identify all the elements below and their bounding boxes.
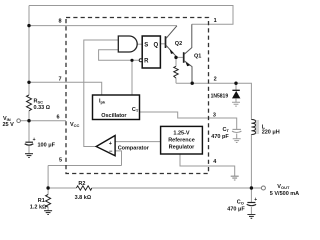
svg-text:25 V: 25 V bbox=[3, 122, 15, 128]
svg-text:220 μH: 220 μH bbox=[262, 129, 280, 135]
node Q2 emitter junction bbox=[174, 56, 177, 59]
node diode junction bbox=[234, 82, 237, 85]
diode D1 bbox=[232, 91, 240, 99]
wire: diode cathode stub bbox=[235, 83, 237, 90]
wire: comparator output to AND gate upper input bbox=[84, 40, 119, 147]
svg-text:VOUT: VOUT bbox=[277, 184, 290, 190]
wire: comparator inverting input riser bbox=[115, 151, 121, 166]
svg-text:Comparator: Comparator bbox=[118, 146, 150, 152]
wire: R1 bottom to ground bbox=[47, 207, 49, 211]
inductor core bbox=[256, 120, 259, 134]
svg-text:3.8 kΩ: 3.8 kΩ bbox=[75, 195, 91, 201]
wire: CO capacitor branch bbox=[250, 188, 252, 202]
svg-text:7: 7 bbox=[58, 77, 61, 83]
wire: pin 3 from oscillator CT to timing capacitor bbox=[140, 112, 237, 129]
wire: pin 8 rail to Q2 collector bbox=[29, 25, 177, 27]
wire: left input rail lower segment bbox=[28, 111, 30, 142]
latch R input bubble bbox=[139, 59, 142, 62]
svg-text:1: 1 bbox=[214, 18, 217, 24]
svg-text:1.25-V: 1.25-V bbox=[173, 130, 190, 136]
transistor Q2 emitter arrow bbox=[170, 49, 174, 54]
svg-text:470 pF: 470 pF bbox=[211, 134, 229, 140]
wire: inductor bottom to output node bbox=[250, 135, 252, 189]
wire: pin 2 emitter rail to switch node corner bbox=[176, 83, 251, 119]
ground diode bbox=[232, 102, 240, 106]
ground input cap bbox=[25, 154, 33, 158]
wire: Q2 emitter node to Q1 base bbox=[176, 56, 183, 58]
wire: latch Q output to Q2 base bbox=[160, 43, 164, 45]
svg-text:2: 2 bbox=[214, 76, 217, 82]
comparator bbox=[96, 136, 115, 156]
svg-text:CO: CO bbox=[237, 199, 244, 205]
wire: CT capacitor to ground bbox=[236, 134, 238, 139]
svg-text:0.33 Ω: 0.33 Ω bbox=[34, 105, 50, 111]
transistor Q1 emitter arrow bbox=[185, 62, 190, 67]
wire: pin 7 to oscillator Ipk input bbox=[29, 82, 102, 95]
svg-text:+: + bbox=[109, 141, 112, 147]
node VIN junction bbox=[27, 119, 30, 122]
svg-text:Q2: Q2 bbox=[175, 41, 182, 47]
wire: feedback divider riser bbox=[47, 166, 49, 195]
svg-text:Reference: Reference bbox=[168, 137, 195, 143]
resistor R2 bbox=[76, 186, 91, 190]
wire: output node to VOUT terminal bbox=[251, 187, 261, 189]
reference regulator block bbox=[161, 126, 203, 154]
svg-text:+: + bbox=[254, 197, 257, 203]
terminal VOUT bbox=[261, 186, 265, 190]
resistor RSC bbox=[27, 95, 32, 111]
wire: VIN terminal stub bbox=[20, 120, 29, 122]
wire: oscillator output to AND gate lower input bbox=[99, 50, 140, 61]
svg-text:RSC: RSC bbox=[34, 99, 44, 105]
node Q1 emitter junction bbox=[191, 82, 194, 85]
node pin 8 junction bbox=[27, 24, 30, 27]
diode D1 cathode bar bbox=[232, 89, 239, 91]
ground pin 4 bbox=[231, 176, 239, 180]
svg-text:Q1: Q1 bbox=[194, 54, 201, 60]
svg-text:Oscillator: Oscillator bbox=[101, 113, 127, 119]
svg-text:Q: Q bbox=[153, 42, 158, 48]
svg-text:470 μF: 470 μF bbox=[227, 206, 245, 212]
capacitor 100uF input bbox=[25, 141, 33, 143]
svg-text:8: 8 bbox=[58, 18, 61, 24]
svg-text:−: − bbox=[109, 149, 113, 155]
wire: comparator noninverting input from reference bbox=[115, 141, 161, 143]
wire: pin 6 VCC stub bbox=[29, 120, 66, 122]
svg-text:S: S bbox=[144, 42, 148, 48]
capacitor CO bbox=[247, 202, 255, 204]
node pin 7 junction bbox=[27, 81, 30, 84]
resistor base R bbox=[174, 66, 178, 78]
wire: bottom feedback rail left of R2 bbox=[48, 187, 76, 189]
SR latch U2 bbox=[142, 36, 160, 68]
node feedback junction bbox=[46, 186, 49, 189]
svg-text:5 V/500 mA: 5 V/500 mA bbox=[270, 191, 299, 197]
node output junction bbox=[250, 186, 253, 189]
wire: pin 4 ground return from reference regulator bbox=[180, 154, 235, 176]
ground CT bbox=[233, 139, 241, 143]
svg-text:1.2 kΩ: 1.2 kΩ bbox=[30, 205, 46, 211]
wire: Q2 emitter node to base resistor top bbox=[175, 57, 177, 66]
svg-text:R1: R1 bbox=[38, 198, 45, 204]
oscillator block bbox=[93, 95, 140, 120]
ground R1 bbox=[44, 211, 52, 215]
svg-text:5: 5 bbox=[59, 158, 62, 164]
capacitor CT bbox=[233, 128, 241, 130]
AND gate U1 bbox=[118, 36, 137, 52]
wire: left input rail upper segment bbox=[28, 6, 30, 96]
svg-text:3: 3 bbox=[213, 112, 216, 118]
svg-text:CT: CT bbox=[132, 107, 139, 113]
svg-text:6: 6 bbox=[56, 114, 59, 120]
svg-text:1N5819: 1N5819 bbox=[211, 93, 229, 99]
svg-text:100 μF: 100 μF bbox=[38, 142, 56, 148]
wire: base resistor bottom to pin 2 rail bbox=[175, 78, 177, 83]
transistor Q1 bbox=[184, 24, 192, 83]
resistor R1 bbox=[46, 195, 51, 208]
wire: pin 5 feedback into IC bbox=[48, 165, 121, 167]
wire: bottom feedback rail right of R2 bbox=[92, 187, 252, 189]
wire: CO capacitor to ground bbox=[250, 207, 252, 214]
node oscillator R junction bbox=[130, 59, 133, 62]
svg-text:R: R bbox=[144, 58, 149, 64]
wire: AND gate output to latch S input bbox=[137, 43, 142, 45]
wire: 100uF capacitor to ground bbox=[28, 146, 30, 154]
svg-text:R2: R2 bbox=[78, 181, 85, 187]
wire: oscillator output riser to R node bbox=[131, 60, 133, 95]
wire: top rail from input rail to pin 1 corner bbox=[29, 6, 233, 25]
svg-text:+: + bbox=[33, 137, 36, 143]
terminal VIN bbox=[17, 119, 21, 123]
svg-text:Ipk: Ipk bbox=[99, 99, 106, 105]
ground CO bbox=[247, 215, 255, 219]
svg-text:Regulator: Regulator bbox=[169, 144, 196, 150]
svg-text:CT: CT bbox=[223, 127, 230, 133]
transistor Q2 bbox=[166, 26, 177, 56]
svg-text:VCC: VCC bbox=[70, 122, 80, 128]
wire: diode anode to ground bbox=[235, 99, 237, 102]
inductor L bbox=[251, 120, 255, 135]
IC boundary dashed box bbox=[66, 18, 209, 174]
